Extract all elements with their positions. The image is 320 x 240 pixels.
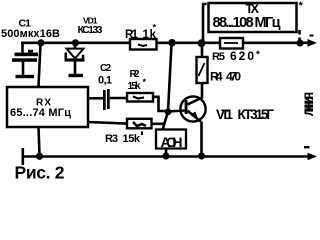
svg-text:TX: TX xyxy=(246,2,260,16)
svg-text:АОН: АОН xyxy=(161,134,183,150)
svg-text:VT1: VT1 xyxy=(216,107,233,122)
svg-text:R4: R4 xyxy=(210,70,223,84)
svg-text:0,1: 0,1 xyxy=(98,75,112,87)
svg-text:КС133: КС133 xyxy=(78,24,103,36)
svg-text:Рис. 2: Рис. 2 xyxy=(15,163,65,183)
svg-text:КТ315Г: КТ315Г xyxy=(238,107,275,122)
svg-text:15k: 15k xyxy=(128,81,141,92)
svg-text:R3: R3 xyxy=(105,133,118,145)
svg-text:470: 470 xyxy=(226,70,241,84)
svg-text:15k: 15k xyxy=(123,133,141,145)
svg-text:R1: R1 xyxy=(125,29,139,41)
svg-text:*: * xyxy=(299,0,304,12)
svg-text:ЛИНИЯ: ЛИНИЯ xyxy=(302,92,316,116)
svg-text:65...74 МГц: 65...74 МГц xyxy=(10,107,71,119)
svg-text:C2: C2 xyxy=(100,63,111,74)
svg-text:R5: R5 xyxy=(212,51,225,63)
svg-text:*: * xyxy=(256,50,260,61)
svg-text:500мкx16В: 500мкx16В xyxy=(1,28,60,40)
svg-text:88...108 МГц: 88...108 МГц xyxy=(213,15,281,31)
svg-text:R2: R2 xyxy=(130,69,140,80)
svg-text:*: * xyxy=(143,77,147,87)
svg-text:*: * xyxy=(153,23,157,34)
svg-text:620: 620 xyxy=(230,49,254,63)
